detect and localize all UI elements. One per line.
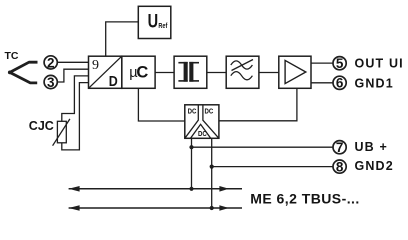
junction DC/DC UB+	[189, 145, 193, 149]
svg-text:5: 5	[336, 56, 344, 71]
A/D converter block	[89, 56, 122, 88]
wire terminal 2 to A/D converter	[57, 61, 89, 63]
svg-text:TC: TC	[5, 50, 19, 62]
svg-text:9: 9	[92, 58, 99, 73]
wire DC/DC to TBUS rail 2 (GND2 vertical)	[211, 138, 213, 208]
svg-text:DC: DC	[205, 106, 214, 115]
TBUS rail 1	[69, 188, 242, 190]
svg-text:2: 2	[47, 55, 55, 70]
wire uC to transformer	[155, 72, 174, 74]
svg-text:CJC: CJC	[29, 119, 54, 133]
wire amplifier to DC/DC converter	[219, 88, 297, 121]
terminal 2	[44, 56, 57, 69]
voltage reference U_Ref block	[138, 6, 171, 38]
wire filter to amplifier	[259, 72, 279, 74]
svg-text:OUT UI: OUT UI	[355, 57, 404, 71]
wire UB+ to terminal 7	[192, 146, 334, 148]
DC/DC converter block	[185, 105, 219, 139]
junction rail 1	[189, 187, 193, 191]
wire A/D converter to CJC thermistor bottom	[62, 83, 89, 150]
transformer isolation block	[174, 56, 207, 88]
svg-text:7: 7	[336, 140, 344, 155]
svg-text:U: U	[148, 11, 159, 32]
svg-text:C: C	[136, 64, 148, 82]
filter block	[226, 56, 259, 88]
wire amplifier to terminal 6	[311, 82, 333, 84]
terminal 3	[44, 75, 57, 88]
svg-text:GND1: GND1	[355, 76, 394, 90]
junction rail 2	[210, 206, 214, 210]
svg-text:ME 6,2 TBUS-...: ME 6,2 TBUS-...	[250, 190, 359, 206]
CJC thermistor RT	[57, 121, 66, 143]
svg-text:Ref: Ref	[158, 21, 167, 30]
microcontroller uC block	[122, 56, 155, 88]
terminal 8	[333, 160, 346, 173]
svg-text:DC: DC	[188, 106, 197, 115]
wire A/D converter to CJC thermistor top	[62, 76, 89, 121]
wire GND2 to terminal 8	[212, 166, 334, 168]
svg-text:GND2: GND2	[355, 159, 394, 173]
TBUS rail 2	[69, 207, 242, 209]
wire U_Ref to A/D converter	[106, 22, 139, 56]
thermocouple TC	[10, 62, 38, 83]
svg-text:8: 8	[336, 160, 344, 175]
svg-text:UB +: UB +	[355, 140, 388, 154]
terminal 5	[333, 57, 346, 70]
svg-text:D: D	[109, 73, 118, 90]
wire terminal 3 to A/D converter	[57, 69, 89, 82]
wire uC to DC/DC converter	[138, 88, 184, 121]
wire DC/DC to TBUS rail 1 (UB+ vertical)	[191, 138, 193, 189]
svg-text:DC: DC	[198, 129, 207, 138]
amplifier block	[279, 56, 311, 88]
wire transformer to filter	[207, 72, 226, 74]
svg-text:3: 3	[47, 75, 55, 90]
terminal 7	[333, 141, 346, 154]
terminal 6	[333, 76, 346, 89]
svg-text:6: 6	[336, 76, 344, 91]
wire amplifier to terminal 5	[311, 62, 333, 64]
junction DC/DC GND2	[210, 165, 214, 169]
